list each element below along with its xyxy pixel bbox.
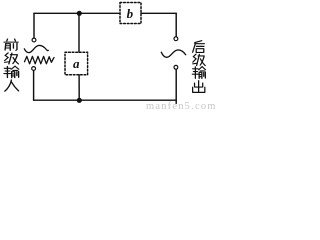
wire top-right horizontal segment (141, 12, 176, 14)
resistor zigzag (left) (25, 56, 55, 63)
AC source sine (left) (24, 45, 48, 52)
label 入 (enter) (5, 80, 19, 91)
wire right vertical lower (175, 69, 177, 103)
label 级 (stage, right) (193, 54, 205, 65)
label 出 (out) (193, 81, 205, 93)
node top junction dot (77, 11, 82, 16)
block b dashed box (120, 3, 141, 24)
label 级 (stage) (5, 53, 19, 64)
terminal left lower (32, 67, 36, 71)
wire top-left horizontal segment (34, 12, 120, 14)
terminal right lower (174, 65, 178, 69)
svg-text:b: b (127, 6, 134, 21)
wire left vertical lower (33, 71, 35, 101)
block a dashed box (65, 52, 88, 74)
label 前 (front) (4, 39, 18, 50)
wire left vertical upper (33, 13, 35, 38)
wire middle vertical lower (78, 75, 80, 101)
terminal left upper (32, 38, 36, 42)
wire bottom horizontal (34, 99, 177, 101)
node bottom junction dot (77, 98, 82, 103)
label 后 (rear) (193, 41, 205, 53)
terminal right upper (174, 37, 178, 41)
label 输 (output char 1) (192, 67, 205, 79)
wire right vertical upper (175, 13, 177, 36)
wire middle vertical upper (78, 13, 80, 52)
AC source sine (right) (161, 50, 185, 57)
label 输 (input char 1) (4, 66, 19, 78)
svg-text:a: a (73, 56, 80, 71)
svg-text:manfen5.com: manfen5.com (146, 101, 216, 110)
